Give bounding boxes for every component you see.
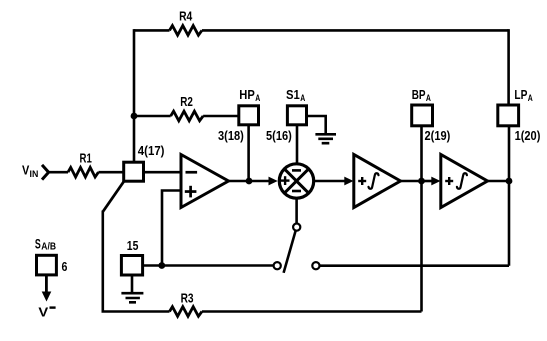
ground under pin 15 [121, 275, 143, 302]
label R4 [179, 9, 193, 24]
wire vertical from top-right corner down to LPA [507, 29, 510, 106]
svg-text:V: V [38, 304, 48, 319]
label 2(19) [425, 128, 451, 143]
pin box S1A [287, 106, 306, 125]
op-amp plus sign [185, 186, 197, 198]
svg-text:R4: R4 [179, 9, 193, 24]
integrator U3 [354, 155, 401, 208]
svg-text:S: S [35, 235, 41, 251]
op-amp U1 [181, 155, 229, 208]
wire BP vertical [420, 126, 423, 312]
label VIN [22, 163, 38, 181]
label R3 [181, 290, 194, 305]
arrow SA/B to V- [42, 275, 52, 302]
wire top R4 net left segment [134, 29, 170, 32]
junction dot noninverting node [158, 262, 165, 269]
svg-text:15: 15 [127, 238, 139, 253]
label 5(16) [266, 128, 292, 143]
integrator U4 plus sign [445, 177, 453, 185]
pin box BPA [412, 105, 433, 126]
wire node to op-amp inverting input [144, 171, 182, 174]
summer U2 circle [279, 164, 313, 198]
resistor R4 [170, 26, 202, 36]
svg-text:V: V [22, 163, 30, 178]
svg-text:HP: HP [239, 87, 255, 102]
wire R2 right segment [203, 115, 239, 118]
resistor R2 [171, 111, 203, 121]
svg-text:A: A [255, 93, 260, 104]
label HPA [239, 87, 260, 104]
pin box 15 [121, 256, 142, 276]
label 15 [127, 238, 139, 253]
label 1(20) [515, 128, 541, 143]
wire diagonal from node box to lower-left vertical [103, 181, 125, 212]
junction dot HP node [246, 178, 253, 185]
wire left vertical from top to node 4(17) [133, 29, 136, 162]
svg-text:BP: BP [412, 87, 426, 102]
svg-text:6: 6 [62, 259, 68, 274]
svg-text:A: A [426, 93, 431, 104]
svg-text:2(19): 2(19) [425, 128, 451, 143]
integrator U4 integral sign [457, 173, 467, 189]
svg-text:3(18): 3(18) [218, 128, 244, 143]
svg-text:A/B: A/B [41, 241, 56, 252]
label V- [38, 304, 55, 319]
label SA/B [35, 235, 56, 252]
switch left contact [274, 262, 281, 269]
pin box SA/B [37, 255, 57, 275]
pin box HPA [239, 106, 259, 125]
svg-text:R3: R3 [181, 290, 194, 305]
wire VIN to R1 [49, 171, 68, 174]
junction dot LP node [506, 178, 513, 185]
junction dot BP node [418, 178, 425, 185]
svg-text:A: A [528, 93, 533, 104]
wire R1 to node box [98, 171, 124, 174]
integrator U3 integral sign [369, 173, 379, 189]
label R2 [180, 94, 193, 109]
summer cross diagonals [284, 169, 308, 193]
wire top R4 net right segment [202, 29, 509, 32]
wire op-amp output [229, 180, 250, 183]
summer plus sign left [281, 176, 290, 185]
switch blade [284, 231, 296, 273]
wire summer to integrator 1 with arrow [314, 177, 354, 186]
wire R2 left segment [134, 115, 171, 118]
label S1A [286, 87, 305, 104]
label BPA [412, 87, 431, 104]
integrator U3 plus sign [358, 177, 366, 185]
summer minus sign bottom [292, 190, 301, 193]
svg-text:A: A [300, 93, 305, 104]
wire node to switch left contact [162, 264, 274, 267]
svg-text:IN: IN [30, 169, 39, 180]
integrator U4 [441, 155, 488, 208]
svg-text:4(17): 4(17) [138, 143, 165, 158]
ground at S1A [315, 134, 336, 143]
label R1 [80, 150, 92, 165]
wire integrator 2 output [488, 180, 510, 183]
wire right contact to LP vertical [320, 264, 510, 267]
wire lower-left vertical [102, 211, 105, 312]
node box 4(17) [124, 162, 144, 181]
wire LP vertical [508, 126, 511, 266]
summer minus sign top [292, 169, 301, 172]
wire summer bottom to switch common [295, 198, 298, 223]
switch common contact [293, 224, 300, 231]
wire BP node to integrator 2 with arrow [422, 177, 441, 186]
label 3(18) [218, 128, 244, 143]
input chevron [42, 165, 49, 180]
label 6 [62, 259, 68, 274]
svg-text:5(16): 5(16) [266, 128, 292, 143]
svg-text:S1: S1 [286, 87, 300, 102]
wire S1A box to summer top [296, 125, 299, 164]
label LPA [514, 87, 532, 104]
svg-text:R2: R2 [180, 94, 193, 109]
svg-text:1(20): 1(20) [515, 128, 541, 143]
op-amp minus sign [186, 171, 198, 174]
resistor R1 [68, 167, 98, 177]
wire HP vertical to HPA box [247, 125, 250, 181]
wire integrator 1 output [401, 180, 422, 183]
wire node to pin-15 box [143, 264, 162, 267]
svg-text:R1: R1 [80, 150, 92, 165]
wire HP node to summer with arrow [249, 177, 278, 186]
wire S1A box to ground [307, 116, 326, 134]
resistor R3 [170, 307, 202, 317]
wire bottom R3 net left segment [102, 310, 170, 313]
switch right contact [312, 262, 319, 269]
wire op-amp noninverting input feedback [162, 189, 181, 265]
label 4(17) [138, 143, 165, 158]
junction dot R2 tap [131, 113, 138, 120]
wire bottom R3 net right segment [202, 310, 422, 313]
svg-text:LP: LP [514, 87, 527, 102]
pin box LPA [498, 105, 519, 126]
